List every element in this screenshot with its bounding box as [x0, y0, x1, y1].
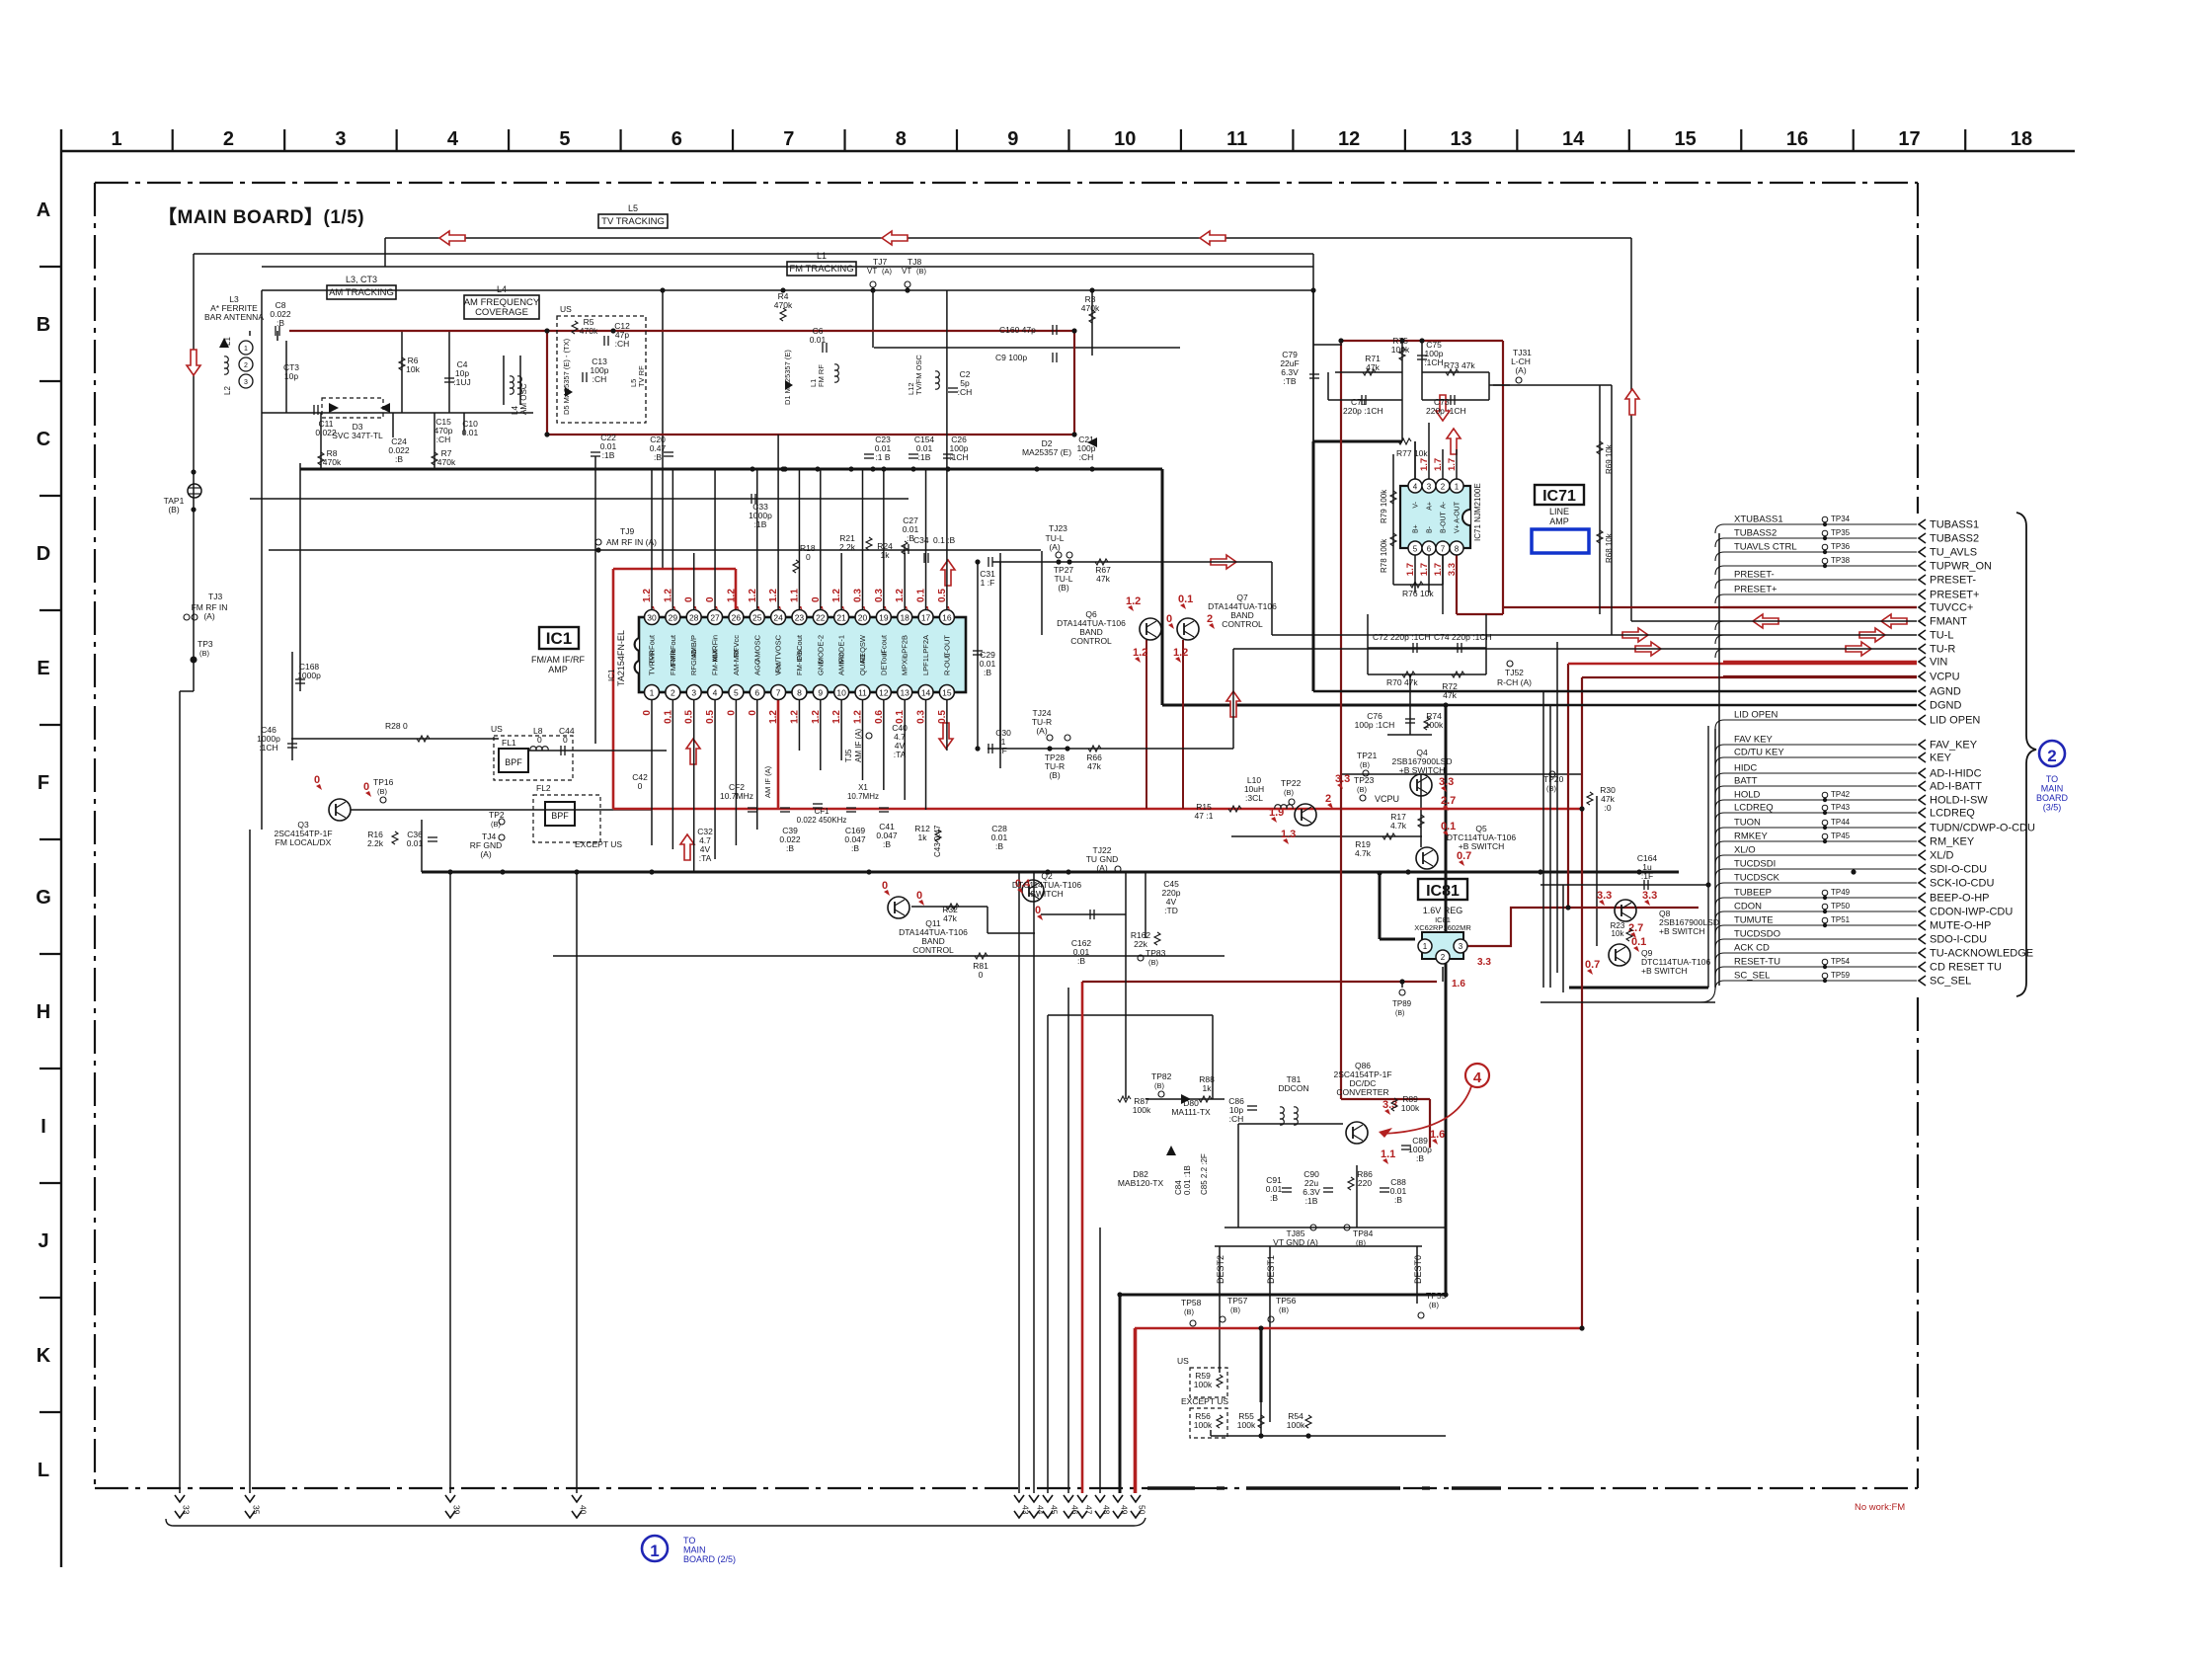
svg-text:FM LOCAL/DX: FM LOCAL/DX: [276, 837, 332, 847]
svg-text:47k: 47k: [1096, 574, 1110, 584]
svg-text:TP56: TP56: [1276, 1296, 1297, 1306]
svg-text:(A): (A): [882, 267, 893, 276]
svg-text:100k: 100k: [1194, 1380, 1213, 1389]
svg-text:TP43: TP43: [1831, 803, 1851, 812]
svg-text:BEEP-O-HP: BEEP-O-HP: [1930, 893, 1990, 905]
svg-text:F: F: [38, 772, 49, 794]
svg-text:PRESET+: PRESET+: [1734, 585, 1777, 595]
svg-text:PRESET+: PRESET+: [1930, 590, 1979, 601]
svg-text:L1: L1: [817, 251, 827, 261]
svg-text:CDON: CDON: [1734, 902, 1762, 912]
svg-text::B: :B: [984, 668, 991, 677]
svg-text:TU-L: TU-L: [1930, 630, 1953, 642]
svg-text:AD-I-HIDC: AD-I-HIDC: [1930, 768, 1982, 780]
svg-text:10.7MHz: 10.7MHz: [720, 791, 753, 801]
svg-text:21: 21: [836, 613, 846, 623]
svg-text:1.1: 1.1: [1381, 1148, 1395, 1160]
svg-text:V+: V+: [1455, 524, 1461, 533]
svg-text:D5 MA25357 (E) - (TX): D5 MA25357 (E) - (TX): [562, 338, 571, 415]
svg-text:A: A: [37, 199, 50, 221]
svg-text:2: 2: [1441, 953, 1446, 962]
svg-text:(3/5): (3/5): [2043, 803, 2062, 813]
svg-text:6: 6: [671, 128, 682, 150]
svg-text:XL/D: XL/D: [1930, 850, 1954, 862]
svg-text:100k: 100k: [1401, 1103, 1420, 1113]
svg-text:0: 0: [1166, 613, 1172, 625]
svg-text:AMP: AMP: [1549, 516, 1569, 526]
svg-text:DEST1: DEST1: [1266, 1255, 1276, 1284]
svg-text:5: 5: [1413, 545, 1418, 554]
svg-text:FM-MIX: FM-MIX: [711, 649, 720, 675]
svg-text:GND: GND: [816, 659, 825, 675]
svg-text:TP20: TP20: [1543, 774, 1564, 784]
svg-text:A+: A+: [1427, 502, 1434, 511]
svg-text:13: 13: [900, 688, 909, 698]
svg-text:DDCON: DDCON: [1278, 1083, 1308, 1093]
svg-text:AD-I-BATT: AD-I-BATT: [1930, 781, 1982, 793]
svg-text:TO: TO: [2046, 774, 2058, 784]
svg-text:EXCEPT US: EXCEPT US: [1181, 1396, 1228, 1406]
svg-text:0.01: 0.01: [810, 335, 827, 345]
svg-text:220p :1CH: 220p :1CH: [1343, 406, 1383, 416]
svg-text:25: 25: [752, 613, 762, 623]
svg-text:LID OPEN: LID OPEN: [1930, 715, 1980, 727]
svg-text:AM IF (A): AM IF (A): [763, 765, 772, 798]
svg-text::B: :B: [883, 839, 891, 849]
svg-text:0.1 :B: 0.1 :B: [933, 535, 956, 545]
svg-text:(B): (B): [1148, 958, 1159, 967]
svg-text::TD: :TD: [1164, 906, 1178, 915]
svg-text:R70 47k: R70 47k: [1386, 677, 1418, 687]
svg-text:3: 3: [1427, 483, 1432, 492]
svg-text:A-OUT: A-OUT: [1455, 501, 1461, 523]
svg-text:49: 49: [1120, 1505, 1130, 1515]
svg-text:9: 9: [1007, 128, 1018, 150]
svg-text:VCPU: VCPU: [1930, 672, 1960, 683]
svg-text:8: 8: [1455, 545, 1460, 554]
svg-text:0.01: 0.01: [462, 428, 479, 437]
svg-text:MA111-TX: MA111-TX: [1171, 1107, 1211, 1117]
svg-text:TP45: TP45: [1831, 831, 1851, 840]
svg-text:SWITCH: SWITCH: [1030, 889, 1064, 899]
svg-text::1B: :1B: [754, 519, 767, 529]
svg-text:24: 24: [773, 613, 783, 623]
svg-text:0.1: 0.1: [1631, 936, 1646, 948]
svg-text:No work:FM: No work:FM: [1855, 1502, 1905, 1513]
svg-text:1k: 1k: [881, 550, 891, 560]
svg-text:IC71: IC71: [1542, 488, 1576, 505]
svg-text:TJ5: TJ5: [844, 749, 853, 762]
svg-text:100k: 100k: [1425, 720, 1444, 730]
svg-text:100k: 100k: [1194, 1420, 1213, 1430]
svg-text::1B: :1B: [602, 450, 615, 460]
svg-text:(B): (B): [1356, 1238, 1367, 1247]
svg-text:1.2: 1.2: [1126, 595, 1141, 607]
svg-text:Vcc: Vcc: [774, 663, 783, 675]
svg-text:MPXin: MPXin: [901, 654, 909, 675]
svg-text:0: 0: [638, 781, 643, 791]
svg-text:L4: L4: [497, 284, 507, 294]
svg-text:18: 18: [2011, 128, 2032, 150]
svg-text:1: 1: [650, 688, 655, 698]
svg-text:TP59: TP59: [1831, 971, 1851, 980]
svg-text:(B): (B): [1395, 1010, 1404, 1017]
svg-text:(B): (B): [1184, 1307, 1195, 1316]
svg-text:TU-R: TU-R: [1930, 644, 1955, 656]
svg-text:TP38: TP38: [1831, 556, 1851, 565]
svg-text:RESET-TU: RESET-TU: [1734, 957, 1780, 968]
svg-text:TUPWR_ON: TUPWR_ON: [1930, 561, 1992, 573]
svg-text:TUVCC+: TUVCC+: [1930, 602, 1973, 614]
svg-text:(B): (B): [1360, 760, 1371, 769]
svg-text:TP23: TP23: [1354, 775, 1375, 785]
svg-text:TUCDSCK: TUCDSCK: [1734, 873, 1780, 884]
svg-text:10k: 10k: [406, 364, 420, 374]
svg-text:FM RF: FM RF: [817, 364, 826, 387]
svg-text:20: 20: [858, 613, 868, 623]
svg-text::B: :B: [1077, 956, 1085, 966]
svg-text:TUBEEP: TUBEEP: [1734, 888, 1772, 899]
svg-text:XL/O: XL/O: [1734, 845, 1756, 856]
svg-text:TUMUTE: TUMUTE: [1734, 915, 1774, 926]
svg-text:DGND: DGND: [1930, 700, 1961, 712]
svg-text:2: 2: [1207, 613, 1213, 625]
svg-text:CONVERTER: CONVERTER: [1336, 1087, 1388, 1097]
svg-text:TP84: TP84: [1353, 1228, 1374, 1238]
svg-text:15: 15: [942, 688, 952, 698]
svg-text:BPF: BPF: [505, 757, 522, 767]
svg-text::B: :B: [1270, 1193, 1278, 1203]
svg-text:LCDREQ: LCDREQ: [1930, 808, 1975, 820]
svg-text:TV TRACKING: TV TRACKING: [601, 216, 665, 227]
svg-text:C43 0.47: C43 0.47: [933, 825, 942, 857]
svg-text:(B): (B): [1284, 788, 1295, 797]
svg-text:(A): (A): [1515, 365, 1527, 375]
svg-text:(B): (B): [1058, 583, 1069, 593]
svg-text:TP36: TP36: [1831, 542, 1851, 551]
svg-text:2: 2: [671, 688, 675, 698]
svg-text:TUCDSDO: TUCDSDO: [1734, 929, 1780, 940]
svg-text::CH: :CH: [592, 374, 607, 384]
svg-text:33: 33: [182, 1505, 192, 1515]
svg-text:+B SWITCH: +B SWITCH: [1659, 926, 1705, 936]
svg-text:A-: A-: [1441, 501, 1448, 509]
svg-text::1B: :1B: [918, 452, 931, 462]
svg-text:DEST0: DEST0: [1413, 1255, 1423, 1284]
svg-text:27: 27: [710, 613, 720, 623]
svg-text:14: 14: [1562, 128, 1585, 150]
svg-text:MUTE-O-HP: MUTE-O-HP: [1930, 920, 1991, 932]
svg-text:14: 14: [921, 688, 931, 698]
svg-text:2: 2: [1325, 793, 1331, 805]
svg-text:0.01 :1B: 0.01 :1B: [1183, 1165, 1192, 1195]
svg-text:TUCDSDI: TUCDSDI: [1734, 859, 1776, 870]
svg-text:TP34: TP34: [1831, 515, 1851, 523]
svg-text:(B): (B): [1357, 785, 1368, 794]
svg-text:BPF: BPF: [551, 811, 569, 821]
svg-text:6: 6: [1427, 545, 1432, 554]
svg-text::0: :0: [1604, 803, 1611, 813]
svg-text:L4: L4: [511, 406, 519, 415]
svg-text:TP58: TP58: [1181, 1298, 1202, 1307]
svg-text:1: 1: [650, 1542, 659, 1560]
svg-text:3: 3: [1459, 942, 1463, 951]
svg-text:1.6: 1.6: [1430, 1129, 1445, 1141]
svg-text:(B): (B): [1230, 1306, 1241, 1314]
svg-text::TA: :TA: [699, 853, 712, 863]
svg-text:C85 2.2 :2F: C85 2.2 :2F: [1200, 1153, 1209, 1195]
svg-text:D1 MA25357 (E): D1 MA25357 (E): [783, 350, 792, 405]
svg-text:L: L: [38, 1460, 49, 1481]
svg-text:17: 17: [1898, 128, 1920, 150]
svg-text:TUBASS2: TUBASS2: [1734, 528, 1777, 539]
svg-text:XTUBASS1: XTUBASS1: [1734, 515, 1783, 525]
svg-text:(B): (B): [199, 649, 210, 658]
svg-text:R-CH (A): R-CH (A): [1497, 677, 1532, 687]
svg-text:TJ7: TJ7: [873, 257, 887, 267]
svg-text:17: 17: [921, 613, 931, 623]
svg-text:45: 45: [1050, 1505, 1060, 1515]
svg-text:10: 10: [1114, 128, 1136, 150]
svg-text:C84: C84: [1174, 1180, 1183, 1195]
svg-text:1k: 1k: [1203, 1083, 1213, 1093]
svg-text:L5: L5: [628, 203, 638, 213]
svg-text:ACK CD: ACK CD: [1734, 943, 1770, 954]
svg-text:15: 15: [1674, 128, 1696, 150]
svg-text:2: 2: [1441, 483, 1446, 492]
svg-text:1: 1: [111, 128, 121, 150]
svg-text:4: 4: [1473, 1069, 1482, 1086]
svg-text:I: I: [40, 1116, 46, 1138]
svg-text:US: US: [560, 304, 572, 314]
svg-text:MA25357 (E): MA25357 (E): [1022, 447, 1071, 457]
svg-text::CH: :CH: [958, 387, 973, 397]
svg-text:TP57: TP57: [1227, 1296, 1248, 1306]
svg-text:EXCEPT US: EXCEPT US: [575, 839, 622, 849]
svg-text:R79 100k: R79 100k: [1380, 489, 1388, 523]
svg-text:0: 0: [537, 735, 542, 745]
svg-text:220p :1CH: 220p :1CH: [1426, 406, 1466, 416]
svg-text:0: 0: [563, 735, 568, 745]
svg-text:1.9: 1.9: [1269, 807, 1284, 819]
svg-text:470k: 470k: [580, 326, 598, 336]
svg-text:470k: 470k: [323, 457, 342, 467]
svg-text:(B): (B): [1049, 770, 1061, 780]
svg-text:5: 5: [734, 688, 739, 698]
svg-text:TO: TO: [683, 1536, 695, 1545]
svg-text:D: D: [37, 543, 50, 565]
svg-text:3.3: 3.3: [1439, 776, 1454, 788]
svg-text:AM RF IN (A): AM RF IN (A): [606, 537, 657, 547]
svg-text:FM TRACKING: FM TRACKING: [789, 264, 853, 275]
svg-text:TU_AVLS: TU_AVLS: [1930, 547, 1977, 559]
svg-text::TA: :TA: [894, 750, 907, 759]
svg-text:TVRFin: TVRFin: [648, 651, 657, 675]
svg-text:7: 7: [783, 128, 794, 150]
svg-text:DETout: DETout: [879, 650, 888, 675]
svg-text:39: 39: [452, 1505, 462, 1515]
svg-text:TJ9: TJ9: [620, 526, 634, 536]
svg-text:TV/FM OSC: TV/FM OSC: [914, 355, 923, 395]
svg-text:(A): (A): [480, 849, 492, 859]
svg-text:LPF1: LPF1: [921, 658, 930, 675]
svg-text:35: 35: [252, 1505, 262, 1515]
svg-text:10p: 10p: [284, 371, 298, 381]
svg-text:0: 0: [314, 774, 320, 786]
svg-text:7: 7: [776, 688, 781, 698]
svg-text::B: :B: [1394, 1195, 1402, 1205]
svg-text:TUDN/CDWP-O-CDU: TUDN/CDWP-O-CDU: [1930, 823, 2035, 834]
svg-text:DEST2: DEST2: [1216, 1255, 1225, 1284]
svg-text:8: 8: [896, 128, 907, 150]
svg-text:4: 4: [1413, 483, 1418, 492]
svg-text:(B): (B): [1279, 1306, 1290, 1314]
svg-text:28: 28: [689, 613, 699, 623]
svg-text:LCDREQ: LCDREQ: [1734, 803, 1774, 814]
svg-text:26: 26: [732, 613, 742, 623]
svg-text:4: 4: [713, 688, 718, 698]
svg-text:FMANT: FMANT: [1930, 616, 1967, 628]
svg-text:1: 1: [1455, 483, 1460, 492]
svg-text:10: 10: [836, 688, 846, 698]
svg-text:30: 30: [647, 613, 657, 623]
svg-text:US: US: [491, 724, 503, 734]
svg-text:43: 43: [1021, 1505, 1031, 1515]
svg-text:TUON: TUON: [1734, 818, 1761, 829]
svg-text:SC_SEL: SC_SEL: [1930, 976, 1971, 988]
svg-text:V-: V-: [1413, 501, 1420, 508]
svg-text:TP44: TP44: [1831, 818, 1851, 827]
svg-text:1k: 1k: [918, 832, 928, 842]
svg-text:(A): (A): [203, 611, 215, 621]
svg-text:10.7MHz: 10.7MHz: [847, 792, 879, 801]
svg-text:TV RF: TV RF: [637, 365, 646, 387]
svg-text::1CH: :1CH: [1424, 357, 1443, 367]
svg-text:2: 2: [2047, 747, 2056, 765]
svg-text:TP22: TP22: [1281, 778, 1302, 788]
svg-text:LPF2A: LPF2A: [921, 635, 930, 658]
svg-text:220: 220: [1358, 1178, 1372, 1188]
svg-text:【MAIN BOARD】(1/5): 【MAIN BOARD】(1/5): [158, 205, 364, 228]
svg-text:J: J: [38, 1230, 48, 1252]
svg-text:C: C: [37, 429, 50, 450]
svg-text:100k: 100k: [1287, 1420, 1305, 1430]
svg-text:0: 0: [363, 781, 369, 793]
svg-text:MAIN: MAIN: [2041, 784, 2064, 794]
svg-text:IC81: IC81: [1426, 883, 1460, 900]
svg-text:(B): (B): [916, 267, 927, 276]
svg-text:AGC: AGC: [752, 659, 761, 675]
svg-text:2.7: 2.7: [1628, 922, 1643, 934]
svg-text::B: :B: [654, 452, 662, 462]
svg-text:0.01: 0.01: [407, 838, 424, 848]
svg-text:B-: B-: [1427, 525, 1434, 533]
svg-text:HOLD-I-SW: HOLD-I-SW: [1930, 795, 1988, 807]
svg-text:TP35: TP35: [1831, 528, 1851, 537]
svg-text:+B SWITCH: +B SWITCH: [1399, 765, 1446, 775]
svg-text:TJ52: TJ52: [1505, 668, 1524, 677]
svg-text:(A): (A): [1096, 863, 1108, 873]
svg-text:C9 100p: C9 100p: [995, 353, 1027, 362]
svg-text:HIDC: HIDC: [1734, 763, 1757, 774]
svg-text:SCK-IO-CDU: SCK-IO-CDU: [1930, 878, 1994, 890]
svg-text:MAIN: MAIN: [683, 1545, 706, 1555]
svg-text:HOLD: HOLD: [1734, 790, 1761, 801]
svg-text:SVC 347T-TL: SVC 347T-TL: [332, 431, 383, 440]
svg-text::B: :B: [786, 843, 794, 853]
svg-text:47k: 47k: [943, 913, 957, 923]
svg-text::CH: :CH: [436, 435, 451, 444]
svg-text:(B): (B): [1546, 784, 1557, 793]
svg-text:PRESET-: PRESET-: [1930, 575, 1976, 587]
svg-text:TP50: TP50: [1831, 902, 1851, 911]
svg-text:470k: 470k: [437, 457, 456, 467]
svg-text:+B SWITCH: +B SWITCH: [1459, 841, 1505, 851]
svg-text:KEY: KEY: [1930, 752, 1952, 764]
svg-text::CH: :CH: [1229, 1114, 1244, 1124]
svg-text:47k: 47k: [1443, 690, 1457, 700]
svg-text:US: US: [1177, 1356, 1189, 1366]
svg-text:13: 13: [1451, 128, 1472, 150]
svg-text::CH: :CH: [615, 339, 630, 349]
svg-text:C74 220p :1CH: C74 220p :1CH: [1434, 632, 1492, 642]
svg-text:12: 12: [879, 688, 889, 698]
svg-text:BOARD: BOARD: [2036, 793, 2069, 803]
svg-text:TUBASS1: TUBASS1: [1930, 519, 1979, 531]
svg-text:47k: 47k: [1087, 761, 1101, 771]
svg-text:18: 18: [900, 613, 909, 623]
svg-text::TB: :TB: [1283, 376, 1297, 386]
svg-text:R-OUT: R-OUT: [942, 652, 951, 675]
svg-text::CH: :CH: [1079, 452, 1094, 462]
svg-text:AM IF (A): AM IF (A): [854, 728, 863, 762]
svg-text:0.1: 0.1: [1178, 594, 1193, 605]
svg-text:FM/AM IF/RF: FM/AM IF/RF: [531, 655, 585, 665]
svg-text:(B): (B): [1429, 1301, 1440, 1309]
svg-text:TUAVLS CTRL: TUAVLS CTRL: [1734, 542, 1797, 553]
svg-text:3: 3: [335, 128, 346, 150]
svg-text:0: 0: [979, 970, 984, 980]
svg-text:2.2k: 2.2k: [839, 542, 856, 552]
svg-text:CD/TU KEY: CD/TU KEY: [1734, 748, 1784, 758]
svg-text:TP54: TP54: [1831, 957, 1851, 966]
svg-text:FM-IFin: FM-IFin: [795, 650, 804, 675]
svg-text:XC62RP1602MR: XC62RP1602MR: [1414, 923, 1471, 932]
svg-text:BATT: BATT: [1734, 776, 1758, 787]
svg-text:FMRFin: FMRFin: [669, 649, 677, 675]
svg-text:2.7: 2.7: [1441, 795, 1456, 807]
svg-text::B: :B: [995, 841, 1003, 851]
svg-text:MAB120-TX: MAB120-TX: [1118, 1178, 1164, 1188]
svg-text::1UJ: :1UJ: [453, 377, 470, 387]
svg-text:8: 8: [797, 688, 802, 698]
svg-text:3.3: 3.3: [1447, 563, 1458, 576]
svg-text:B: B: [37, 314, 50, 336]
svg-text::1CH: :1CH: [259, 743, 277, 752]
svg-text:3.3: 3.3: [1477, 957, 1491, 968]
svg-text:RM_KEY: RM_KEY: [1930, 836, 1975, 848]
svg-text:BAR ANTENNA: BAR ANTENNA: [204, 312, 264, 322]
svg-text::F: :F: [999, 746, 1007, 755]
svg-text:3.3: 3.3: [1335, 773, 1350, 785]
svg-text:LINE: LINE: [1549, 507, 1569, 516]
svg-text:L3, CT3: L3, CT3: [346, 275, 377, 284]
svg-text:470k: 470k: [1081, 303, 1100, 313]
svg-text:QUAD: QUAD: [858, 654, 867, 675]
svg-text:G: G: [36, 887, 51, 909]
svg-text:IC71 NJM2100E: IC71 NJM2100E: [1473, 483, 1482, 541]
svg-text:TJ3: TJ3: [208, 592, 222, 601]
